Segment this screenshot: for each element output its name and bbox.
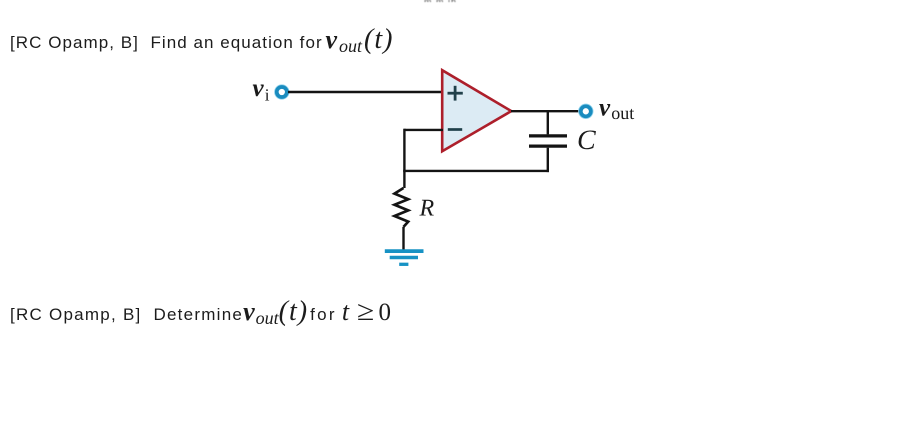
input terminal vi (275, 85, 289, 99)
node vout label (599, 94, 634, 123)
op-amp + pin marking (448, 86, 463, 101)
op-amp - pin marking (448, 128, 462, 131)
clipped text remnant at top edge (424, 0, 460, 2)
wire: output node down to capacitor top plate (547, 111, 549, 134)
svg-text:out: out (611, 103, 634, 123)
svg-text:v: v (253, 75, 265, 102)
ground (385, 251, 424, 264)
capacitor C plates (529, 136, 567, 146)
svg-text:i: i (265, 86, 270, 105)
svg-text:R: R (419, 196, 435, 222)
wire: feedback bottom horizontal segment (403, 170, 549, 172)
output terminal vout (579, 104, 593, 118)
title text line 1 (10, 26, 393, 54)
wire: capacitor bottom plate to feedback wire (547, 148, 549, 172)
svg-text:C: C (577, 125, 596, 156)
node vi label (253, 75, 270, 105)
op-amp U1 (442, 70, 511, 151)
wire: op-amp - input to feedback corner (404, 129, 443, 131)
wire: input terminal to op-amp + input (288, 91, 443, 93)
title text line 2 (10, 298, 391, 326)
wire: resistor to ground (402, 227, 404, 250)
resistor R (395, 188, 409, 227)
wire: feedback vertical segment down to resistor (403, 129, 405, 188)
wire: op-amp output to vout terminal (511, 110, 580, 112)
svg-text:v: v (599, 94, 611, 121)
